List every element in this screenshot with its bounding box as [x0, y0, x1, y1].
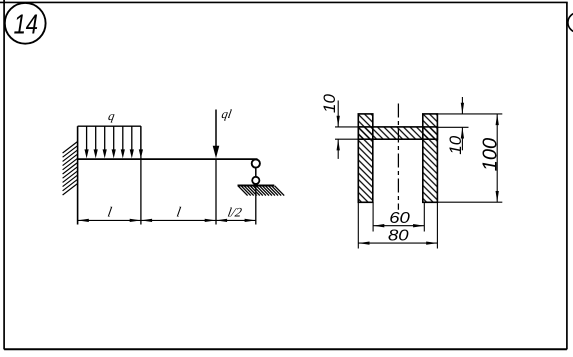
100 bottom extension line — [437, 201, 502, 203]
distributed load q top line — [78, 125, 141, 127]
point load ql arrowhead — [213, 146, 220, 159]
roller link — [255, 168, 257, 177]
60 extension lines — [372, 202, 374, 231]
roller support pin circle — [252, 159, 260, 167]
point load ql line — [215, 110, 217, 148]
label 80 — [388, 226, 409, 244]
frame top border — [0, 1, 568, 3]
label ql — [220, 107, 233, 121]
80 dimension line — [358, 242, 437, 244]
right 10 lower extension line — [437, 126, 468, 128]
frame right border — [566, 2, 568, 349]
right flange (hatched) — [423, 114, 438, 202]
left flange (hatched) — [358, 114, 373, 202]
80 extension lines — [357, 202, 359, 248]
60 dimension line — [373, 225, 424, 227]
beam dimension line — [78, 219, 256, 221]
fixed support wall line — [77, 126, 79, 224]
svg-text:14: 14 — [14, 9, 38, 40]
frame left border — [3, 0, 5, 349]
label l (first span) — [106, 204, 113, 220]
adjacent cell circle arc (15) — [568, 13, 573, 33]
left 10: extension lines — [335, 126, 363, 128]
svg-text:60: 60 — [389, 208, 410, 226]
svg-text:80: 80 — [388, 226, 409, 244]
fixed support hatching — [63, 142, 78, 196]
centerline — [397, 104, 399, 210]
frame bottom border — [4, 348, 567, 350]
distributed load q arrows — [87, 126, 141, 151]
roller ground hatching — [238, 186, 284, 196]
problem number circle 14 — [5, 3, 46, 44]
right 10 dimension line + arrows — [461, 97, 463, 114]
svg-text:100: 100 — [479, 138, 501, 171]
dimension arrows — [78, 219, 256, 222]
label l (second span) — [175, 204, 182, 220]
roller ground line — [238, 185, 275, 187]
web plate (hatched) — [358, 127, 437, 139]
beam — [78, 158, 258, 160]
label 60 — [389, 208, 410, 226]
label q — [107, 109, 116, 123]
extension line at load end — [140, 126, 142, 224]
roller circle — [252, 177, 259, 184]
left 10: dimension line + arrows — [337, 101, 339, 127]
svg-text:10: 10 — [446, 135, 465, 154]
extension line at right support — [255, 186, 257, 225]
label l/2 — [227, 204, 244, 219]
right 10 + 100 top extension line — [437, 113, 502, 115]
svg-text:10: 10 — [320, 94, 339, 113]
100 dimension line — [496, 114, 498, 202]
extension line under point load — [215, 159, 217, 224]
